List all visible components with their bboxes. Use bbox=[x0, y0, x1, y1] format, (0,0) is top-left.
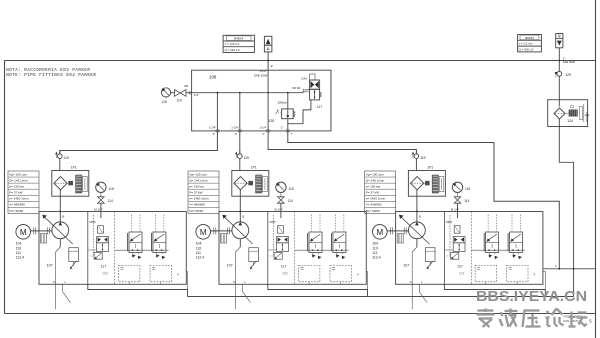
svg-text:NOTA: RACCORDERIA ED2 PARKER: NOTA: RACCORDERIA ED2 PARKER bbox=[6, 69, 90, 73]
wire group3 T return bbox=[444, 284, 545, 296]
filter 124 element bbox=[569, 110, 577, 116]
svg-text:P: P bbox=[235, 132, 237, 136]
wire return drop to filter bbox=[558, 48, 560, 107]
watermark chinese characters bbox=[477, 309, 588, 328]
wire relief to T port bbox=[287, 119, 289, 131]
svg-text:BBS.IYEYA.CN: BBS.IYEYA.CN bbox=[476, 289, 587, 305]
svg-text:1-1/4": 1-1/4" bbox=[231, 125, 238, 129]
frame bottom border bbox=[5, 313, 596, 315]
wire filter to return rail bbox=[559, 119, 573, 297]
tank symbol B (flow down) bbox=[556, 34, 563, 48]
valve 117 solenoid bbox=[303, 89, 309, 92]
wire group3 x port bbox=[543, 270, 545, 272]
svg-text:Ø48X4: Ø48X4 bbox=[234, 37, 244, 41]
svg-text:1-1/4": 1-1/4" bbox=[209, 125, 216, 129]
wire header to 117 bbox=[302, 91, 304, 93]
manifold box 108 bbox=[192, 70, 331, 131]
svg-text:NOTE: PIPE FITTINGS ED2 PARKER: NOTE: PIPE FITTINGS ED2 PARKER bbox=[6, 74, 96, 78]
pump group 3 bbox=[365, 151, 543, 310]
frame left border bbox=[4, 61, 6, 314]
shutoff valve 114 left bbox=[171, 92, 175, 94]
filter 124 diamond bbox=[554, 108, 565, 119]
port P1 drop bbox=[216, 93, 218, 131]
svg-text:Ø60X4: Ø60X4 bbox=[525, 36, 534, 40]
pump group 2 bbox=[188, 151, 366, 310]
filter 124 box bbox=[548, 100, 588, 127]
svg-text:SAE 3000: SAE 3000 bbox=[563, 60, 576, 64]
wire main return rail bbox=[188, 296, 574, 298]
svg-text:1-1/4": 1-1/4" bbox=[260, 125, 267, 129]
svg-text:F: F bbox=[555, 264, 557, 268]
relief valve 128 bbox=[287, 93, 289, 109]
gauge 115 left bbox=[161, 88, 170, 97]
port P2 drop bbox=[239, 93, 241, 131]
svg-text:P: P bbox=[263, 132, 265, 136]
svg-text:SAE 3000: SAE 3000 bbox=[254, 73, 268, 77]
spec table A O48X4 bbox=[223, 35, 254, 52]
check valve 129 bbox=[557, 71, 562, 76]
svg-text:12416988: 12416988 bbox=[585, 112, 587, 123]
pump group 1 bbox=[8, 151, 186, 310]
svg-text:129: 129 bbox=[565, 73, 571, 77]
svg-text:115: 115 bbox=[162, 100, 167, 104]
port P3 drop bbox=[267, 70, 269, 131]
svg-text:1": 1" bbox=[281, 125, 284, 129]
svg-text:108: 108 bbox=[209, 74, 217, 79]
svg-text:v = 2,5 m/s: v = 2,5 m/s bbox=[519, 42, 533, 46]
valve 117 spring bbox=[320, 92, 322, 97]
svg-text:Q = 294 L/1': Q = 294 L/1' bbox=[225, 48, 241, 52]
svg-text:128: 128 bbox=[268, 119, 274, 123]
wire 117 tank line bbox=[288, 100, 311, 124]
svg-text:117: 117 bbox=[317, 105, 323, 109]
svg-text:280bar: 280bar bbox=[278, 100, 287, 104]
tank symbol A (flow up) bbox=[264, 36, 272, 52]
svg-text:V = 3,8 m/s: V = 3,8 m/s bbox=[225, 42, 240, 46]
spec table B O60X4 bbox=[518, 35, 542, 52]
svg-text:CA6: CA6 bbox=[301, 77, 307, 81]
wire group1 T return bbox=[88, 284, 188, 296]
wire: main tank/top rail y=60 bbox=[5, 60, 596, 62]
svg-text:Q = 300 L/1': Q = 300 L/1' bbox=[519, 47, 535, 51]
svg-text:MP: MP bbox=[184, 84, 188, 88]
wire P drop to group 2 bbox=[239, 131, 241, 154]
svg-text:1/4": 1/4" bbox=[194, 93, 199, 97]
svg-text:P: P bbox=[271, 64, 273, 68]
solenoid valve 117 top bbox=[310, 74, 315, 80]
wire group3 F port to tank header bbox=[543, 268, 595, 270]
wire T rail from 108 down right bbox=[288, 131, 560, 269]
wire P drop from symbol A bbox=[267, 52, 269, 70]
svg-text:114: 114 bbox=[176, 99, 181, 103]
frame right border bbox=[595, 0, 597, 338]
svg-text:T: T bbox=[291, 132, 293, 136]
wire interior header bbox=[192, 92, 303, 94]
svg-text:M6 M2: M6 M2 bbox=[292, 86, 301, 90]
svg-text:P: P bbox=[213, 132, 215, 136]
wire group2 T return bbox=[268, 284, 368, 296]
wire P rail to group 1 bbox=[60, 131, 218, 154]
svg-text:124: 124 bbox=[567, 119, 573, 123]
wire P rail to group 3 bbox=[268, 131, 416, 154]
port tick marks bbox=[215, 129, 219, 131]
